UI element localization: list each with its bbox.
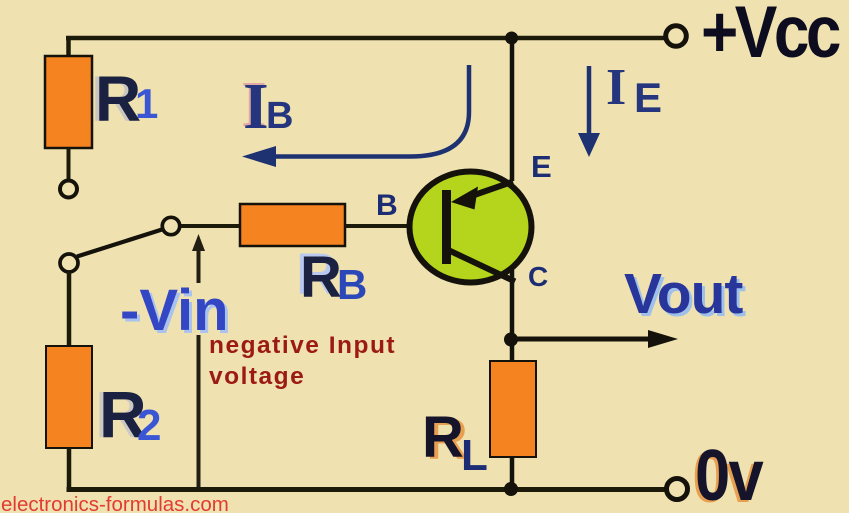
wire bottom rail <box>67 487 666 492</box>
label R1 <box>95 63 158 135</box>
svg-text:0v: 0v <box>695 436 764 513</box>
resistor R2 <box>46 346 92 448</box>
resistor RL <box>490 361 536 457</box>
svg-text:E: E <box>531 149 552 184</box>
node junction top rail / emitter wire <box>505 32 518 45</box>
switch terminal upper right <box>162 217 179 234</box>
label B <box>376 189 398 222</box>
label C <box>528 261 548 292</box>
node collector / Vout junction <box>504 333 518 347</box>
resistor R1 <box>45 56 92 148</box>
wire switch to RB <box>181 224 241 228</box>
svg-text:+Vcc: +Vcc <box>701 0 840 73</box>
label +Vcc <box>701 0 840 73</box>
svg-text:electronics-formulas.com: electronics-formulas.com <box>1 493 229 513</box>
label RB <box>300 245 367 310</box>
svg-text:R: R <box>300 245 342 310</box>
switch blade <box>77 230 162 257</box>
svg-text:B: B <box>266 95 293 137</box>
svg-text:C: C <box>528 261 548 292</box>
svg-text:Vout: Vout <box>624 262 743 326</box>
svg-text:L: L <box>461 431 488 480</box>
terminal +Vcc <box>666 26 687 47</box>
arrow -Vin up <box>192 234 205 488</box>
label 0v <box>695 436 764 513</box>
watermark electronics-formulas.com <box>1 493 229 513</box>
current arrow IE <box>578 66 600 157</box>
wire top rail <box>66 36 664 41</box>
terminal 0v <box>667 479 688 500</box>
label Vout <box>624 262 743 326</box>
label R2 <box>99 377 161 451</box>
current arrow IB <box>242 65 469 167</box>
svg-text:I: I <box>243 70 269 143</box>
wire emitter vertical <box>510 38 515 181</box>
switch terminal lower left <box>60 254 78 272</box>
label RL <box>422 405 488 480</box>
transistor Q1 <box>410 172 532 283</box>
svg-text:1: 1 <box>135 80 158 127</box>
wire R1 bottom stub <box>67 148 71 180</box>
wire RB to base <box>345 224 444 228</box>
wire collector vertical <box>510 270 515 489</box>
terminal open below R1 <box>60 181 77 198</box>
svg-text:voltage: voltage <box>209 363 305 390</box>
svg-text:B: B <box>337 261 367 308</box>
label negative Input voltage <box>209 332 396 390</box>
wire R1 top stub <box>66 36 71 58</box>
svg-text:R: R <box>422 405 464 470</box>
label IB <box>243 70 293 143</box>
resistor RB <box>240 204 345 246</box>
svg-text:E: E <box>634 74 662 121</box>
label IE <box>606 59 662 121</box>
label E <box>531 149 552 184</box>
arrow Vout <box>511 330 678 348</box>
svg-text:2: 2 <box>137 401 161 450</box>
svg-text:negative Input: negative Input <box>209 332 396 359</box>
svg-text:B: B <box>376 189 398 222</box>
wire R2 bottom <box>67 448 72 491</box>
svg-text:I: I <box>606 59 626 116</box>
wire R2 top (switch to R2) <box>67 272 72 347</box>
label -Vin <box>120 278 229 343</box>
node bottom junction <box>504 482 518 496</box>
